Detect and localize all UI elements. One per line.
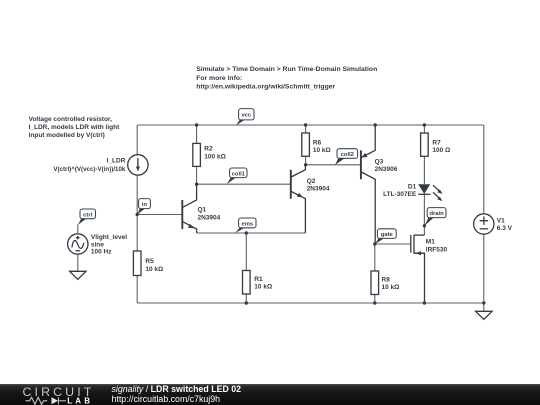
svg-text:6.3 V: 6.3 V xyxy=(497,225,513,232)
svg-text:100 Hz: 100 Hz xyxy=(91,248,112,255)
svg-text:Vlight_level: Vlight_level xyxy=(91,234,127,241)
svg-text:V1: V1 xyxy=(497,217,505,224)
svg-text:sine: sine xyxy=(91,241,104,248)
wire: bottom ground rail xyxy=(137,302,484,304)
wire: R8 top stub xyxy=(374,244,376,271)
junction: node coll1 xyxy=(195,183,198,186)
junction: ground rail at M1 source xyxy=(423,301,426,304)
annotation: LDR note xyxy=(29,116,120,139)
svg-text:signality / LDR switched LED 0: signality / LDR switched LED 02 xyxy=(112,384,242,394)
svg-text:For more info:: For more info: xyxy=(196,75,242,82)
svg-text:M1: M1 xyxy=(426,239,435,246)
resistor R5 xyxy=(133,251,163,276)
current source I_LDR xyxy=(53,155,148,175)
svg-text:R6: R6 xyxy=(313,139,322,146)
node flag in xyxy=(137,199,150,215)
ground at bottom right xyxy=(476,303,493,319)
MOSFET M1 IRF530 xyxy=(411,235,448,303)
svg-text:2N3906: 2N3906 xyxy=(375,166,398,173)
junction: vcc rail at R6 xyxy=(304,123,307,126)
ground below Vlight_level xyxy=(70,271,86,279)
wire: R7 top stub xyxy=(423,125,425,133)
svg-text:http://circuitlab.com/c7kuj9h: http://circuitlab.com/c7kuj9h xyxy=(112,394,221,404)
svg-text:100 Ω: 100 Ω xyxy=(432,147,450,154)
node flag coll1 xyxy=(227,168,247,184)
svg-text:http://en.wikipedia.org/wiki/S: http://en.wikipedia.org/wiki/Schmitt_tri… xyxy=(196,84,335,91)
wire: left branch upper (rail to I_LDR) xyxy=(136,125,138,155)
wire: gate wire from Q3 collector node to M1 gate xyxy=(375,243,411,245)
svg-text:vcc: vcc xyxy=(241,113,251,119)
svg-text:Q2: Q2 xyxy=(307,178,316,185)
wire: coll2 to Q3 base xyxy=(306,164,361,166)
svg-text:V(ctrl)^(V(vcc)-V(in))/10k: V(ctrl)^(V(vcc)-V(in))/10k xyxy=(53,166,126,173)
svg-text:ctrl: ctrl xyxy=(83,212,92,218)
svg-text:10 kΩ: 10 kΩ xyxy=(145,266,163,273)
junction: vcc rail at R7 xyxy=(423,123,426,126)
footer logo resistor-diode glyph xyxy=(26,397,67,404)
svg-text:coll1: coll1 xyxy=(232,171,246,177)
wire: R1 bottom stub xyxy=(245,294,247,303)
transistor Q1 2N3904 xyxy=(182,184,220,233)
junction: node drain xyxy=(423,224,426,227)
junction: vcc rail at R2 xyxy=(195,123,198,126)
wire: R2 top stub xyxy=(196,125,198,143)
junction: node ems at R1 xyxy=(245,231,248,234)
voltage source Vlight_level xyxy=(68,234,128,256)
svg-text:2N3904: 2N3904 xyxy=(198,214,221,221)
transistor Q3 2N3906 xyxy=(361,125,398,244)
svg-text:R5: R5 xyxy=(145,258,154,265)
wire: R5 bottom to ground rail xyxy=(136,276,138,304)
svg-text:R2: R2 xyxy=(204,146,213,153)
node flag ctrl xyxy=(78,209,96,225)
node flag gate xyxy=(375,229,396,244)
svg-text:coll2: coll2 xyxy=(341,152,354,158)
svg-text:I_LDR, models LDR with light: I_LDR, models LDR with light xyxy=(29,124,120,131)
LED D1 LTL-307EE xyxy=(383,183,442,201)
svg-text:Q3: Q3 xyxy=(375,159,384,166)
wire: top vcc rail xyxy=(137,124,484,126)
svg-text:IRF530: IRF530 xyxy=(426,246,448,253)
wire: R6 bottom to coll2 node xyxy=(305,156,307,165)
svg-text:R7: R7 xyxy=(432,139,441,146)
wire: R8 bottom stub xyxy=(374,295,376,304)
svg-text:gate: gate xyxy=(381,232,394,238)
wire: V1 top branch xyxy=(483,125,485,214)
svg-text:ems: ems xyxy=(241,222,253,228)
junction: node gate xyxy=(373,242,376,245)
svg-text:100 kΩ: 100 kΩ xyxy=(204,153,225,160)
svg-text:10 kΩ: 10 kΩ xyxy=(313,147,331,154)
svg-text:R1: R1 xyxy=(254,276,263,283)
junction: ground rail at R1 xyxy=(245,301,248,304)
annotation: simulate instructions xyxy=(196,66,377,90)
svg-text:I_LDR: I_LDR xyxy=(107,158,126,165)
wire: I_LDR to R5 through node in xyxy=(136,175,138,251)
svg-text:10 kΩ: 10 kΩ xyxy=(382,284,400,291)
transistor Q2 2N3904 xyxy=(291,165,330,233)
svg-text:10 kΩ: 10 kΩ xyxy=(254,284,272,291)
svg-text:LAB: LAB xyxy=(67,396,93,405)
wire: R6 top stub xyxy=(305,125,307,133)
junction: vcc rail at Q3 emitter xyxy=(374,123,377,126)
wire: ems rail (Q1 emitter to Q2 emitter) xyxy=(197,232,306,234)
svg-text:input modelled by V(ctrl): input modelled by V(ctrl) xyxy=(29,132,105,139)
svg-text:Voltage controlled resistor,: Voltage controlled resistor, xyxy=(29,116,113,123)
resistor R6 xyxy=(302,133,331,156)
junction: ground rail at R8 xyxy=(373,301,376,304)
resistor R7 xyxy=(421,133,451,156)
wire: Vlight bottom stub xyxy=(77,254,79,271)
node flag ems xyxy=(235,218,256,233)
svg-text:R8: R8 xyxy=(382,276,391,283)
voltage source V1 xyxy=(474,214,513,234)
junction: ground rail at V1 xyxy=(482,301,485,304)
svg-text:D1: D1 xyxy=(408,183,417,190)
resistor R8 xyxy=(371,271,399,295)
node flag vcc xyxy=(236,109,254,126)
wire: R1 top stub xyxy=(245,233,247,271)
wire: Q1 base wire from node in xyxy=(137,214,181,216)
node flag coll2 xyxy=(335,149,358,165)
wire: R2 bottom to coll1 node xyxy=(196,166,198,184)
resistor R2 xyxy=(193,143,226,166)
node flag drain xyxy=(425,208,446,226)
wire: coll1 to Q2 base xyxy=(197,183,291,185)
svg-text:LTL-307EE: LTL-307EE xyxy=(383,191,417,198)
svg-text:2N3904: 2N3904 xyxy=(307,186,330,193)
wire: R7 bottom to LED anode xyxy=(423,156,425,184)
svg-text:in: in xyxy=(142,202,148,208)
wire: V1 bottom branch xyxy=(483,234,485,303)
resistor R1 xyxy=(243,271,273,295)
svg-text:Q1: Q1 xyxy=(198,207,207,214)
svg-text:drain: drain xyxy=(430,211,445,217)
junction: node coll2 xyxy=(304,163,307,166)
junction: node in xyxy=(136,213,139,216)
wire: Vlight top stub xyxy=(77,224,79,233)
svg-text:Simulate > Time Domain > Run T: Simulate > Time Domain > Run Time-Domain… xyxy=(196,66,377,73)
footer bar xyxy=(0,384,540,405)
wire: LED cathode to M1 drain xyxy=(423,194,425,235)
